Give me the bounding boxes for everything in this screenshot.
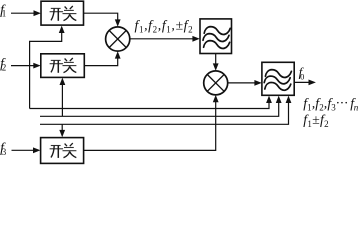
- svg-text:f3: f3: [0, 141, 7, 157]
- switch box 2 (开关): [41, 54, 85, 78]
- wire mixer2 to filter2: [228, 82, 257, 84]
- wire f2 input arrow: [11, 65, 35, 67]
- bus B wire: [40, 100, 279, 116]
- switch box 3 (开关): [41, 138, 84, 164]
- wire f3 input arrow: [12, 149, 35, 151]
- svg-text:f1,f2,f1,±f2: f1,f2,f1,±f2: [135, 18, 194, 35]
- bus A wire: [30, 100, 269, 109]
- wire control to switch1 (from bus A): [30, 31, 62, 109]
- svg-text:f1: f1: [0, 3, 6, 19]
- bus C wire: [40, 100, 289, 124]
- wire box2 to mixer1: [84, 56, 117, 66]
- wire f0 output arrow: [294, 81, 310, 83]
- svg-text:f1,f2,f3···fn: f1,f2,f3···fn: [303, 97, 359, 113]
- wire control to switch3 (from bus C down): [61, 124, 63, 132]
- wire filter1 to mixer2: [215, 54, 217, 67]
- svg-text:f2: f2: [0, 57, 6, 73]
- switch box 1 (开关): [41, 1, 84, 25]
- wire box3 to mixer2 (up through buses): [84, 100, 216, 151]
- wire f1 input arrow: [11, 12, 35, 14]
- wire control to switch2 (from bus B up): [61, 82, 63, 116]
- svg-text:f1±f2: f1±f2: [303, 112, 329, 129]
- svg-text:f0: f0: [299, 65, 305, 82]
- wire mixer1 to filter1: [130, 38, 195, 40]
- wire box1 to mixer1: [84, 13, 118, 22]
